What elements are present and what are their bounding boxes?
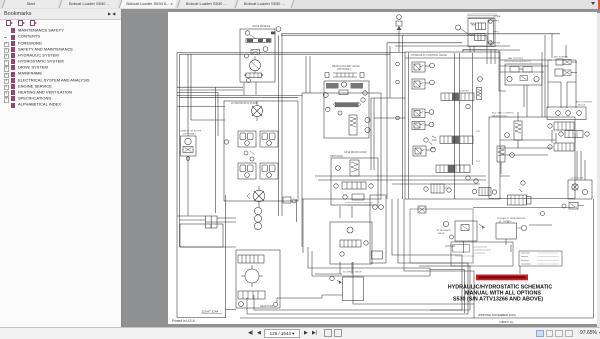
- spec table small TL1: [451, 242, 513, 266]
- svg-text:T6B: T6B: [497, 43, 501, 45]
- svg-text:AUX COUPLER: AUX COUPLER: [576, 101, 592, 104]
- rear aux valve RA1: [323, 65, 369, 138]
- wire top bundle: [281, 34, 560, 36]
- hcv spool V1: [441, 77, 482, 109]
- wire top mid horizontals: [387, 43, 462, 46]
- wire second bundle: [177, 52, 405, 54]
- gear pump GP1: [236, 250, 280, 308]
- second pump box: [302, 93, 381, 199]
- svg-text:(PRINTED NOVEMBER 2015): (PRINTED NOVEMBER 2015): [478, 313, 516, 317]
- svg-text:T6A: T6A: [497, 15, 501, 18]
- sn text block SN1: [456, 14, 501, 47]
- mid right relief MR1: [492, 112, 522, 149]
- hcv node D6: [424, 138, 435, 150]
- svg-text:(OPTIONAL): (OPTIONAL): [183, 133, 196, 136]
- wire bottom staircase bundle: [240, 199, 474, 318]
- wire charge filter drop: [188, 54, 225, 216]
- hcv spool V3: [436, 161, 481, 173]
- hp cluster c: [238, 163, 256, 179]
- svg-text:VALVE MODULE: VALVE MODULE: [252, 25, 271, 28]
- top small comp TS1: [396, 15, 402, 52]
- hp aux circles: [224, 140, 296, 203]
- temp switch TW1: [496, 217, 527, 245]
- right lower box RB1: [547, 101, 592, 120]
- svg-text:VALVE: VALVE: [438, 232, 445, 235]
- wire pump box links: [302, 56, 352, 274]
- right cluster RC1: [548, 122, 574, 130]
- valve module VM1: [240, 25, 281, 82]
- hcv bottom cluster HB1: [424, 184, 451, 193]
- svg-text:BLOCK: BLOCK: [578, 105, 586, 107]
- wire mid horizontals: [177, 87, 302, 106]
- hcv left verticals: [403, 35, 501, 199]
- hcv solenoid S3: [412, 109, 434, 118]
- attachment cluster AT1: [437, 221, 485, 253]
- svg-text:VALVE BLOCK: VALVE BLOCK: [492, 115, 507, 118]
- bookmarks panel: [0, 9, 122, 327]
- svg-text:CASE DRAIN FILTER: CASE DRAIN FILTER: [344, 151, 367, 154]
- charge filter CF1: [180, 130, 202, 161]
- accumulator AC1: [497, 146, 514, 174]
- bookmark toolbar icons: [6, 20, 116, 27]
- svg-text:Printed in U.S.A.: Printed in U.S.A.: [172, 319, 196, 323]
- svg-text:TILT: TILT: [476, 161, 481, 163]
- svg-text:P1: P1: [497, 21, 499, 23]
- svg-text:(OPTIONAL): (OPTIONAL): [337, 68, 351, 71]
- node letter NL1: [541, 212, 545, 216]
- hp cluster d: [260, 163, 278, 179]
- svg-text:COUPLER: COUPLER: [459, 91, 469, 93]
- right cluster RC2: [548, 143, 574, 151]
- thin box TB2: [410, 206, 473, 263]
- wire right edge drop: [474, 199, 594, 318]
- svg-text:HYDRAULIC CONTROL VALVE: HYDRAULIC CONTROL VALVE: [411, 54, 447, 57]
- hydrostatic pump box: [224, 101, 298, 201]
- wire hcv left bundle: [371, 43, 405, 199]
- x pump A XP0: [252, 101, 263, 121]
- svg-text:S530 (S/N A7TV13266 AND ABOVE): S530 (S/N A7TV13266 AND ABOVE): [453, 296, 543, 302]
- status bar: [0, 327, 600, 339]
- right cluster RC3: [559, 131, 589, 138]
- svg-text:HYDRAULIC TEMPERATURE: HYDRAULIC TEMPERATURE: [497, 217, 526, 220]
- right small comp RS1: [562, 203, 584, 210]
- wire bottom right connectors: [297, 176, 521, 310]
- right long vertical: [542, 35, 545, 117]
- wire right ladder: [552, 34, 566, 58]
- canvas + page: [121, 9, 600, 327]
- hp cluster a: [238, 131, 256, 147]
- svg-text:(OPTIONAL): (OPTIONAL): [330, 155, 343, 158]
- tall box TB1: [370, 195, 386, 263]
- wire right verticals low: [552, 130, 585, 180]
- oil cooler OC1: [568, 178, 592, 200]
- svg-text:GEAR PUMP: GEAR PUMP: [260, 305, 274, 308]
- wire left verticals: [177, 52, 226, 317]
- svg-text:7286347 (C): 7286347 (C): [499, 320, 514, 324]
- x pump XP1: [247, 186, 265, 207]
- hcv solenoid S4: [413, 146, 435, 156]
- plain rect PR1: [343, 277, 364, 301]
- hcv solenoid S5: [412, 122, 434, 130]
- node letters on left hcv rail: [396, 62, 400, 120]
- svg-text:OIL COOLER: OIL COOLER: [570, 178, 584, 180]
- svg-text:AFT SCREEN: AFT SCREEN: [554, 56, 568, 59]
- hcv solenoid S2: [412, 79, 434, 89]
- svg-text:LIFT: LIFT: [476, 131, 481, 133]
- svg-text:SOLENOID VALVE: SOLENOID VALVE: [343, 271, 362, 274]
- below hcv comp BH1: [466, 176, 497, 196]
- tab bar: [0, 0, 600, 10]
- svg-text:T1: T1: [497, 32, 499, 34]
- svg-text:120 AT 1244: 120 AT 1244: [202, 310, 219, 314]
- wire bottom-left steps: [177, 216, 236, 247]
- svg-text:ATTACHMENT: ATTACHMENT: [437, 229, 452, 232]
- wire valve module stem: [244, 34, 282, 216]
- junction square JS1: [206, 216, 218, 228]
- fan control FC1: [504, 57, 542, 85]
- red banner: [476, 275, 528, 281]
- solenoid node SB1: [330, 271, 362, 285]
- wire right drop bundle: [458, 35, 527, 117]
- wire hcv-to-right: [500, 60, 556, 225]
- svg-text:FAN CONTROL: FAN CONTROL: [508, 57, 524, 60]
- title text: [448, 285, 553, 303]
- svg-text:SWITCH: SWITCH: [503, 221, 512, 223]
- spec table TL2: [519, 251, 562, 266]
- wire sn block links: [463, 47, 497, 53]
- hcv solenoid S1: [412, 62, 434, 72]
- relief valve PM2: [349, 115, 357, 135]
- svg-text:HYDROSTATIC PUMP: HYDROSTATIC PUMP: [231, 101, 258, 105]
- svg-text:(FIELD MODULATION KIT): (FIELD MODULATION KIT): [504, 60, 531, 63]
- svg-text:CHARGE OIL FILTER: CHARGE OIL FILTER: [180, 130, 202, 133]
- wire mid verticals: [216, 87, 219, 213]
- hcv box: [405, 52, 500, 199]
- mid box MB1: [330, 222, 372, 264]
- tandem circles TC1: [254, 207, 261, 229]
- hcv spool V2: [432, 131, 481, 144]
- lower pump box LP1: [330, 151, 378, 205]
- pump module spool PM1: [326, 98, 371, 135]
- right goblet RG1: [548, 60, 576, 108]
- aft screen AS1: [554, 56, 577, 77]
- wire title area tie: [430, 270, 465, 314]
- below hcv cylinder BH2: [473, 181, 575, 208]
- svg-text:ACS / AHC CONTROL: ACS / AHC CONTROL: [492, 112, 515, 115]
- hcv lower box: [489, 117, 575, 199]
- hp cluster b: [260, 131, 278, 147]
